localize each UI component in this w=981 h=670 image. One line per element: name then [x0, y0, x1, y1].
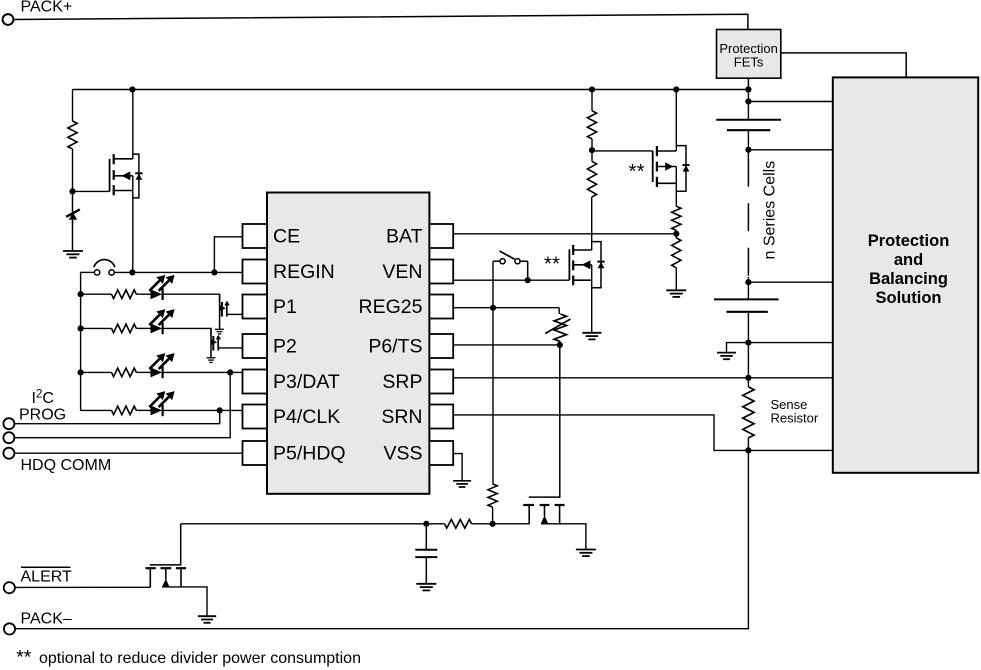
resistor R9 [672, 238, 681, 268]
note optional [16, 646, 361, 668]
wire PACK+ to Protection FETs [13, 14, 748, 29]
wire pack top to box [748, 101, 832, 103]
wire cell2 node to box [748, 281, 832, 283]
wire Protection FETs to Protection/Balancing box [781, 53, 906, 78]
wire R10 to gate net [492, 507, 494, 524]
wire cell1 node to box [748, 149, 832, 151]
terminal HDQ [3, 448, 14, 459]
PACK+ terminal [3, 14, 14, 25]
resistor R11 sense [743, 387, 754, 438]
wire top rail [73, 89, 749, 91]
wire divider node to Q2 gate [592, 150, 653, 152]
wire CE to REGIN net [214, 237, 242, 273]
ground battery [717, 353, 736, 360]
wire sense node to PACK- [15, 450, 748, 628]
node REG25 junction [490, 305, 496, 311]
node SRP sense [745, 375, 751, 381]
svg-text:Resistor: Resistor [771, 411, 819, 426]
resistor R7 divider [587, 161, 596, 197]
label Q2 optional [629, 161, 645, 183]
ground Q5 [582, 333, 601, 340]
wire LED1 to Q3 drain [163, 294, 220, 302]
wire row2 stub [81, 327, 112, 329]
Protection and Balancing Solution block [833, 77, 978, 472]
pin REG25 [359, 295, 454, 319]
transistor Q3 [220, 294, 230, 329]
wire SDA to P3 net [14, 372, 230, 437]
wire cell1 to node [747, 130, 749, 150]
HDQ COMM label [21, 457, 112, 474]
node rail-pack junction [745, 86, 751, 92]
wire jumper left to LED rail [81, 271, 95, 273]
terminal SCL [3, 418, 14, 429]
wire Q7 source to ground [162, 587, 207, 616]
node sense bottom [745, 447, 751, 453]
wire row3 stub [81, 371, 112, 373]
svg-text:**: ** [544, 254, 560, 276]
transistor Q7 [146, 568, 187, 587]
wire LED2 to Q4 drain [163, 328, 211, 336]
wire R1 to gate node [72, 149, 74, 191]
ALERT label [21, 567, 73, 585]
resistor R6 divider top [587, 111, 596, 139]
wire R6 to node [591, 139, 593, 151]
svg-text:P3/DAT: P3/DAT [273, 371, 340, 393]
pin SRN [381, 405, 453, 429]
transistor Q2 [653, 90, 690, 207]
svg-text:PACK+: PACK+ [21, 0, 73, 16]
node divider mid [589, 147, 595, 153]
svg-text:**: ** [629, 161, 645, 183]
node TS junction [557, 342, 563, 348]
ground zener [63, 251, 83, 258]
node rail row1 [78, 291, 84, 297]
node cap junction [423, 521, 429, 527]
node P3 net [227, 369, 233, 375]
resistor R12 [445, 520, 472, 529]
Protection FETs block [717, 30, 781, 79]
resistor R2 LED1 [112, 290, 137, 299]
wire row1 stub [81, 293, 112, 295]
ground divider [666, 290, 686, 297]
node rail-left FET junction [129, 86, 135, 92]
wire jumper right to REGIN [114, 271, 242, 273]
svg-text:FETs: FETs [734, 55, 764, 70]
svg-text:P6/TS: P6/TS [368, 336, 422, 358]
wire Q4 gate to P2 [218, 347, 242, 349]
pin P6/TS [368, 334, 453, 358]
ground Q6 [576, 550, 596, 557]
ground Q7 [198, 616, 216, 623]
wire SRP [453, 377, 748, 379]
wire R9 to ground [675, 268, 677, 291]
node REGIN-Q1 [129, 269, 135, 275]
wire R5 to LED4 [136, 409, 150, 411]
node REGIN-CE [211, 269, 217, 275]
transistor Q5 [569, 197, 604, 333]
wire R2 to LED1 [136, 293, 150, 295]
wire cell2 node to box [748, 342, 832, 344]
svg-text:P5/HDQ: P5/HDQ [273, 443, 346, 465]
wire ALERT [15, 586, 150, 588]
wire rail corner down [72, 90, 74, 122]
wire cell2 to node [747, 312, 749, 343]
LED D4 [149, 353, 174, 378]
wire Q6 source to ground [541, 524, 586, 550]
transistor Q1 [110, 90, 143, 273]
svg-text:P2: P2 [273, 336, 297, 358]
svg-text:REG25: REG25 [359, 296, 423, 318]
PROG label [19, 407, 66, 424]
ground Q4 [207, 358, 216, 363]
terminal PACK- [4, 623, 15, 634]
resistor R4 LED3 [112, 368, 137, 377]
jumper J1 [94, 260, 115, 276]
svg-text:Protection: Protection [868, 232, 950, 250]
wire R12 to node [472, 523, 530, 525]
PACK- label [21, 611, 72, 628]
wire cell2 node to sense [747, 343, 749, 378]
wire VEN [453, 279, 569, 281]
pin BAT [386, 224, 453, 248]
node pullup junction [490, 521, 496, 527]
terminal SDA [3, 432, 14, 443]
wire Protection FETs to top rail [747, 78, 749, 89]
I2C label [32, 388, 54, 407]
Sense Resistor label [771, 397, 819, 426]
node cell2 bottom [745, 340, 751, 346]
wire battery ground stub [727, 343, 749, 353]
pin CE [243, 224, 301, 248]
IC U1 fuel gauge [267, 193, 429, 494]
node VEN junction [525, 277, 531, 283]
pin REGIN [243, 260, 335, 284]
wire REG25 [453, 307, 559, 309]
wire Q3 gate to P1 [227, 313, 243, 315]
pin VSS [383, 441, 453, 465]
terminal ALERT [4, 582, 15, 593]
transistor Q4 [211, 328, 221, 357]
resistor R3 LED2 [112, 324, 137, 333]
svg-text:SRN: SRN [381, 406, 422, 428]
battery cell1 [716, 120, 781, 131]
ground VSS [453, 481, 471, 487]
wire rail down [492, 308, 494, 484]
svg-text:BAT: BAT [386, 226, 423, 248]
pin P2 [243, 334, 297, 358]
svg-text:Solution: Solution [876, 289, 942, 307]
node gate-zener junction [69, 188, 75, 194]
zener diode D1 [66, 191, 80, 251]
svg-text:PROG: PROG [19, 407, 66, 424]
svg-text:PACK–: PACK– [21, 611, 72, 628]
node rail-FET2 junction [673, 86, 679, 92]
resistor R5 LED4 [112, 406, 137, 415]
wire node to R7 [591, 150, 593, 161]
svg-text:Balancing: Balancing [869, 270, 948, 288]
wire thermistor to node [559, 342, 561, 345]
wire to cell1 [747, 90, 749, 120]
capacitor C1 [415, 524, 437, 584]
thermistor RT1 [545, 314, 570, 342]
node rail row2 [78, 325, 84, 331]
PACK+ label [21, 0, 73, 16]
wire LED supply rail [81, 272, 112, 410]
LED D3 [149, 309, 174, 334]
wire HDQ to P5 [14, 452, 242, 454]
transistor Q6 [523, 505, 564, 524]
svg-text:CE: CE [273, 226, 300, 248]
wire sense node to box [748, 449, 832, 451]
wire SCL to P4 net [14, 410, 219, 423]
LED D5 [149, 391, 174, 416]
svg-text:P4/CLK: P4/CLK [273, 406, 340, 428]
resistor R10 pullup [488, 484, 497, 507]
n Series Cells label [762, 161, 779, 260]
svg-text:n Series Cells: n Series Cells [762, 161, 779, 260]
node rail row3 [78, 369, 84, 375]
wire R3 to LED2 [136, 327, 150, 329]
wire SRP node to box [748, 377, 832, 379]
pin P4/CLK [243, 405, 341, 429]
svg-text:HDQ COMM: HDQ COMM [21, 457, 112, 474]
svg-text:VEN: VEN [382, 261, 422, 283]
wire VSS [453, 454, 462, 481]
pin P5/HDQ [243, 441, 346, 465]
wire to cell2 [747, 282, 749, 299]
battery cell2 [714, 299, 779, 311]
wire R4 to LED3 [136, 371, 150, 373]
wire REG25 to thermistor [558, 308, 560, 314]
pin P3/DAT [243, 370, 340, 394]
node pack top [745, 98, 751, 104]
pin VEN [382, 260, 453, 284]
wire to sense resistor [747, 378, 749, 387]
wire gate net to Q7 [150, 524, 181, 565]
wire R8 to node [675, 230, 677, 238]
wire rail to R6 [591, 90, 593, 111]
svg-text:optional to reduce divider pow: optional to reduce divider power consump… [39, 650, 361, 667]
svg-text:P1: P1 [273, 296, 297, 318]
ground C1 [416, 584, 436, 591]
transistor Q1 gate wire [73, 190, 110, 192]
wire dashed n cells [747, 150, 749, 282]
wire switch rail [492, 261, 494, 308]
pin SRP [382, 370, 453, 394]
svg-text:SRP: SRP [382, 371, 422, 393]
wire sense to node [747, 438, 749, 451]
svg-text:**: ** [16, 646, 32, 668]
resistor R8 [672, 206, 681, 230]
node P4 net [217, 407, 223, 413]
wire TS node to Q6 gate [529, 345, 560, 497]
switch S1 [493, 251, 528, 280]
svg-text:I2C: I2C [32, 388, 54, 407]
LED D2 [149, 275, 174, 300]
svg-text:VSS: VSS [383, 443, 422, 465]
wire SRN [453, 415, 748, 451]
svg-text:and: and [894, 251, 923, 269]
pin P1 [243, 295, 297, 319]
wire P6/TS [453, 344, 560, 346]
label Q5 optional [544, 254, 560, 276]
resistor R1 gate pullup [68, 121, 77, 149]
wire LED4 to P4/CLK [163, 409, 243, 411]
node BAT-divider [673, 231, 679, 237]
ground Q3 [215, 329, 224, 334]
node cell2 top [745, 279, 751, 285]
wire BAT [453, 233, 676, 235]
node rail-divider junction [589, 86, 595, 92]
svg-text:REGIN: REGIN [273, 261, 335, 283]
wire gate net [181, 523, 445, 525]
svg-text:ALERT: ALERT [21, 569, 73, 586]
node cell1 bottom [745, 147, 751, 153]
wire LED3 to P3/DAT [163, 371, 243, 373]
